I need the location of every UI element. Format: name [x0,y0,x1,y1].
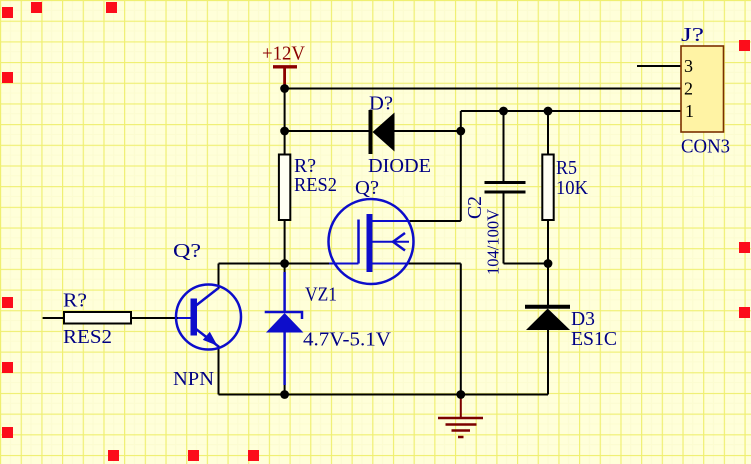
wire resistor to zener column x=284.6 [284,220,286,274]
wire drain column x=460.8 [460,111,462,221]
mosfet drain stub [373,220,411,222]
svg-text:104/100V: 104/100V [484,208,503,275]
red selection marker left 1 [2,7,13,18]
wire +12V column x=284.6 upper [284,89,286,155]
svg-text:10K: 10K [556,177,589,199]
wire R5 top lead x=548 [547,111,549,155]
wire diode row right y=131 [395,130,461,132]
wire C2 bottom lead x=503.5 [503,193,505,264]
wire D3 bottom x=548 [547,330,549,395]
junction R5 top [544,107,553,116]
wire pin3 stub y=66 [637,65,681,67]
wire source column x=460.8 [460,264,462,395]
connector J? CON3 [681,24,730,158]
wire C2 top lead x=503.5 [503,111,505,182]
svg-text:R5: R5 [556,157,577,179]
svg-text:D3: D3 [571,308,595,330]
npn emitter diagonal [196,329,219,347]
wire npn emitter x=218.5 [218,346,220,395]
wire pin2 rail y=88.5 [285,88,681,90]
mosfet substrate arrow [373,241,410,243]
red selection marker bottom 2 [188,450,199,461]
wire left resistor to base [131,317,178,319]
red selection marker left 2 [2,72,13,83]
mosfet Q? (N-channel, blue) [329,177,414,284]
resistor R? (upper, vertical RES2) [279,155,337,221]
wire source row y=263.5 [406,263,461,265]
mosfet channel bar [367,214,373,272]
junction gate node [280,259,289,268]
red selection marker right 3 [739,307,750,318]
wire gate row y=263.5 [219,263,332,265]
power +12V symbol [262,43,306,89]
mosfet gate plate [357,220,360,264]
resistor R? (left, horizontal RES2) [63,290,131,349]
resistor R5 10K (vertical) [542,155,588,221]
wire C2 bottom horizontal y=263.5 [504,263,549,265]
junction ground node [456,390,465,399]
junction diode row right [456,127,465,136]
red selection marker top 2 [106,2,117,13]
wire bottom rail y=394.5 [219,394,549,396]
wire R5 bottom to D3 x=548 [547,220,549,305]
red selection marker left 5 [2,427,13,438]
red selection marker top 1 [31,2,42,13]
svg-text:DIODE: DIODE [368,155,431,177]
svg-text:+12V: +12V [262,43,306,65]
junction zener bottom rail [280,390,289,399]
npn base lead [178,317,191,319]
wire drain horizontal y=221 [409,220,461,222]
zener diode VZ1 (blue) [265,272,392,385]
diode D3 ES1C (vertical, pointing up) [525,307,617,350]
diode D? DIODE (horizontal, pointing left) [368,93,431,178]
mosfet source stub [373,263,408,265]
red selection marker right 1 [739,40,750,51]
junction R5/D3/C2 node [544,259,553,268]
red selection marker bottom 3 [248,450,259,461]
svg-text:ES1C: ES1C [571,328,617,350]
zener bottom lead [283,333,286,386]
svg-text:RES2: RES2 [294,174,337,196]
npn base bar [191,299,198,336]
svg-text:Q?: Q? [173,240,201,262]
svg-text:J?: J? [681,24,704,46]
svg-text:D?: D? [369,93,393,115]
red selection marker right 2 [739,242,750,253]
zener triangle [266,313,303,333]
junction diode row left [280,127,289,136]
svg-text:1: 1 [685,101,694,121]
wire left resistor left lead [43,317,64,319]
wire diode row left y=131 [285,130,369,132]
capacitor C2 104/100V [464,183,526,276]
ground [438,395,483,438]
mosfet gate lead (blue inside circle) [329,263,359,265]
svg-text:NPN: NPN [173,368,214,390]
wire pin1 rail y=111 [461,110,681,112]
junction C2 top [499,107,508,116]
svg-text:R?: R? [63,290,87,312]
svg-text:RES2: RES2 [63,326,112,348]
svg-text:VZ1: VZ1 [305,284,337,306]
zener cathode bar with bent end [265,312,302,319]
svg-text:CON3: CON3 [681,136,730,158]
npn collector diagonal [196,288,219,306]
wire npn collector x=218.5 [218,264,220,290]
red selection marker bottom 1 [108,450,119,461]
svg-text:2: 2 [684,79,693,99]
red selection marker left 3 [2,297,13,308]
svg-text:3: 3 [684,56,693,76]
npn emitter arrowhead [203,332,218,346]
transistor Q? NPN (blue) [173,240,241,390]
svg-text:Q?: Q? [355,177,379,199]
wire zener bottom column x=284.6 [284,384,286,395]
svg-text:4.7V-5.1V: 4.7V-5.1V [303,329,392,351]
red selection marker left 4 [2,362,13,373]
junction at +12V / pin2 [280,84,289,93]
